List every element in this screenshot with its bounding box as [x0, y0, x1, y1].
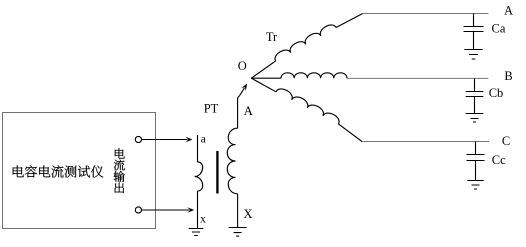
svg-text:Cb: Cb — [489, 86, 504, 100]
svg-text:O: O — [238, 59, 247, 73]
svg-text:Cc: Cc — [492, 153, 506, 167]
svg-text:Ca: Ca — [492, 21, 506, 35]
svg-text:PT: PT — [204, 102, 219, 116]
svg-text:A: A — [504, 3, 513, 17]
svg-text:C: C — [502, 134, 510, 148]
svg-text:B: B — [504, 69, 512, 83]
svg-text:A: A — [244, 104, 253, 118]
svg-text:a: a — [201, 133, 206, 145]
svg-text:Tr: Tr — [266, 30, 278, 44]
svg-text:x: x — [200, 214, 206, 226]
svg-text:X: X — [243, 207, 252, 221]
